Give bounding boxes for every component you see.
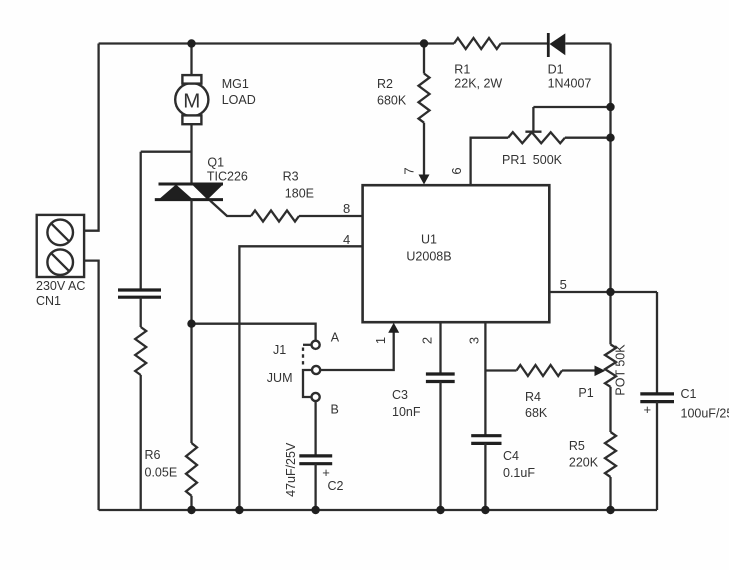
svg-text:R4: R4 (525, 390, 541, 404)
svg-text:POT 50K: POT 50K (614, 344, 628, 396)
pin 7 arrow (419, 175, 430, 185)
label PR1 500K (502, 153, 563, 167)
wire motor branch from top rail (190, 44, 192, 77)
resistor R5 (605, 432, 616, 477)
svg-text:8: 8 (343, 201, 350, 216)
label D1 1N4007 (548, 63, 592, 91)
svg-text:Q1: Q1 (207, 156, 224, 170)
svg-text:680K: 680K (377, 94, 407, 108)
svg-text:100uF/25: 100uF/25 (681, 407, 729, 421)
wire pin 6 to PR1 left (471, 138, 509, 186)
svg-text:R3: R3 (283, 169, 299, 183)
svg-text:U2008B: U2008B (406, 250, 451, 264)
label R4 68K (525, 390, 548, 420)
label 230V AC CN1 (36, 279, 85, 308)
node bottom rail C4 (481, 506, 489, 514)
svg-text:10nF: 10nF (392, 405, 421, 419)
svg-text:R2: R2 (377, 77, 393, 91)
motor MG1 (175, 75, 208, 124)
node bottom rail C3 (436, 506, 444, 514)
svg-text:P1: P1 (578, 386, 593, 400)
resistor snubber (135, 327, 146, 375)
svg-text:PR1: PR1 (502, 153, 526, 167)
label R6 0.05E (145, 448, 178, 479)
node triac-R6 junction (187, 320, 195, 328)
wire PR1 right terminal to right rail (565, 137, 611, 139)
svg-text:U1: U1 (421, 233, 437, 247)
wire C1 to bottom rail (656, 402, 658, 510)
wire C2 to bottom rail (314, 464, 316, 510)
wire pin5 to C1 (656, 292, 658, 394)
svg-text:6: 6 (449, 167, 464, 174)
svg-text:C3: C3 (392, 388, 408, 402)
wire R2 to pin 7 (423, 123, 425, 176)
svg-text:47uF/25V: 47uF/25V (284, 442, 298, 497)
resistor R4 (517, 365, 563, 376)
svg-text:B: B (331, 403, 339, 417)
label Q1 TIC226 (207, 156, 248, 184)
wire R5 to bottom rail (609, 477, 611, 510)
node bottom rail R5 (606, 506, 614, 514)
wire motor to triac (190, 123, 192, 184)
resistor R3 (251, 211, 299, 222)
wire triac to node A junction (190, 200, 192, 443)
node wiper junction (606, 103, 614, 111)
svg-text:4: 4 (343, 232, 350, 247)
label R2 680K (377, 77, 407, 108)
diode D1 (548, 33, 565, 57)
op-amp U1 U2008B (363, 185, 550, 322)
svg-text:D1: D1 (548, 63, 564, 77)
svg-text:7: 7 (402, 167, 417, 174)
svg-text:0.05E: 0.05E (145, 466, 178, 480)
wire PR1 wiper to right rail (533, 106, 610, 108)
svg-text:JUM: JUM (267, 371, 293, 385)
P1 wiper arrow (595, 366, 606, 377)
svg-text:1N4007: 1N4007 (548, 77, 592, 91)
svg-text:22K, 2W: 22K, 2W (454, 77, 502, 91)
jumper J1 (303, 341, 320, 401)
svg-text:3: 3 (467, 337, 482, 344)
wire snubber to bottom rail (140, 375, 142, 510)
node pin5 junction (606, 288, 614, 296)
resistor R2 (419, 74, 430, 123)
svg-text:TIC226: TIC226 (207, 169, 248, 183)
svg-text:R1: R1 (454, 63, 470, 77)
wire pin 3 lower (484, 443, 486, 510)
svg-text:C1: C1 (681, 387, 697, 401)
wire top rail left (99, 42, 454, 44)
svg-text:MG1: MG1 (222, 77, 249, 91)
node bottom rail R6 (187, 506, 195, 514)
svg-text:+: + (322, 465, 330, 480)
wire pin 4 (239, 246, 362, 510)
svg-text:230V AC: 230V AC (36, 279, 85, 293)
capacitor C1 (640, 394, 674, 417)
pin 1 arrow (388, 323, 399, 333)
node bottom rail C2 (311, 506, 319, 514)
svg-text:CN1: CN1 (36, 294, 61, 308)
potentiometer PR1 (508, 107, 565, 143)
wire top rail right (D1 to corner) (565, 42, 610, 44)
svg-text:180E: 180E (285, 187, 314, 201)
wire snubber tap (141, 151, 192, 153)
wire bottom rail (99, 509, 657, 511)
svg-text:0.1uF: 0.1uF (503, 466, 535, 480)
svg-text:220K: 220K (569, 456, 599, 470)
svg-text:J1: J1 (273, 343, 286, 357)
capacitor C2 (299, 456, 332, 480)
triac Q1 (155, 184, 223, 200)
wire pin 2 upper (439, 322, 441, 374)
node top rail R2 junction (420, 39, 428, 47)
svg-text:M: M (183, 89, 200, 112)
resistor R6 (186, 443, 197, 496)
wire left vertical lower (CN1 bottom to bottom rail) (84, 261, 99, 510)
capacitor snubber (118, 290, 161, 297)
svg-text:500K: 500K (533, 153, 563, 167)
capacitor C3 (426, 374, 455, 382)
label MG1 LOAD (222, 77, 256, 107)
svg-text:LOAD: LOAD (222, 93, 256, 107)
svg-text:R6: R6 (145, 448, 161, 462)
wire P1 to R5 (609, 387, 611, 432)
wire gate of Q1 (210, 201, 251, 217)
svg-text:68K: 68K (525, 406, 548, 420)
svg-text:C4: C4 (503, 449, 519, 463)
label C3 10nF (392, 388, 421, 419)
wire R6 to bottom rail (190, 496, 192, 510)
label R3 180E (283, 169, 314, 200)
node top rail motor junction (187, 39, 195, 47)
wire snubber vertical (140, 152, 142, 289)
label C1 100uF/25 (681, 387, 729, 421)
wire top rail to R2 (423, 44, 425, 74)
wire R4 to P1 wiper (562, 369, 596, 371)
wire pin 5 (549, 291, 657, 293)
wire pin3 to R4 (485, 369, 516, 371)
wire pin 3 upper (484, 322, 486, 436)
wire right vertical (top corner down to P1) (609, 44, 611, 345)
potentiometer P1 (605, 344, 616, 386)
svg-text:2: 2 (419, 337, 434, 344)
resistor R1 (454, 38, 501, 49)
wire left vertical upper (CN1 top to top rail) (84, 44, 99, 231)
label R5 220K (569, 439, 599, 470)
capacitor C4 (471, 436, 501, 444)
wire R3 to pin 8 (299, 215, 363, 217)
label R1 22K 2W (454, 63, 502, 91)
svg-text:1: 1 (373, 337, 388, 344)
svg-text:5: 5 (560, 277, 567, 292)
svg-text:R5: R5 (569, 439, 585, 453)
svg-text:A: A (331, 331, 340, 345)
label C4 0.1uF (503, 449, 535, 480)
wire jumper B to C2 (314, 401, 316, 456)
node bottom rail pin4 (235, 506, 243, 514)
wire top rail mid (R1 to D1) (501, 42, 548, 44)
wire jumper mid to pin 1 (320, 331, 393, 370)
wire snubber cap to resistor (140, 297, 142, 327)
connector CN1 (37, 215, 84, 277)
svg-text:+: + (644, 402, 652, 417)
node PR1 right junction (606, 134, 614, 142)
wire node A (triac-R6 junction to jumper A) (192, 324, 316, 341)
wire pin 2 lower (439, 382, 441, 511)
svg-text:C2: C2 (328, 479, 344, 493)
